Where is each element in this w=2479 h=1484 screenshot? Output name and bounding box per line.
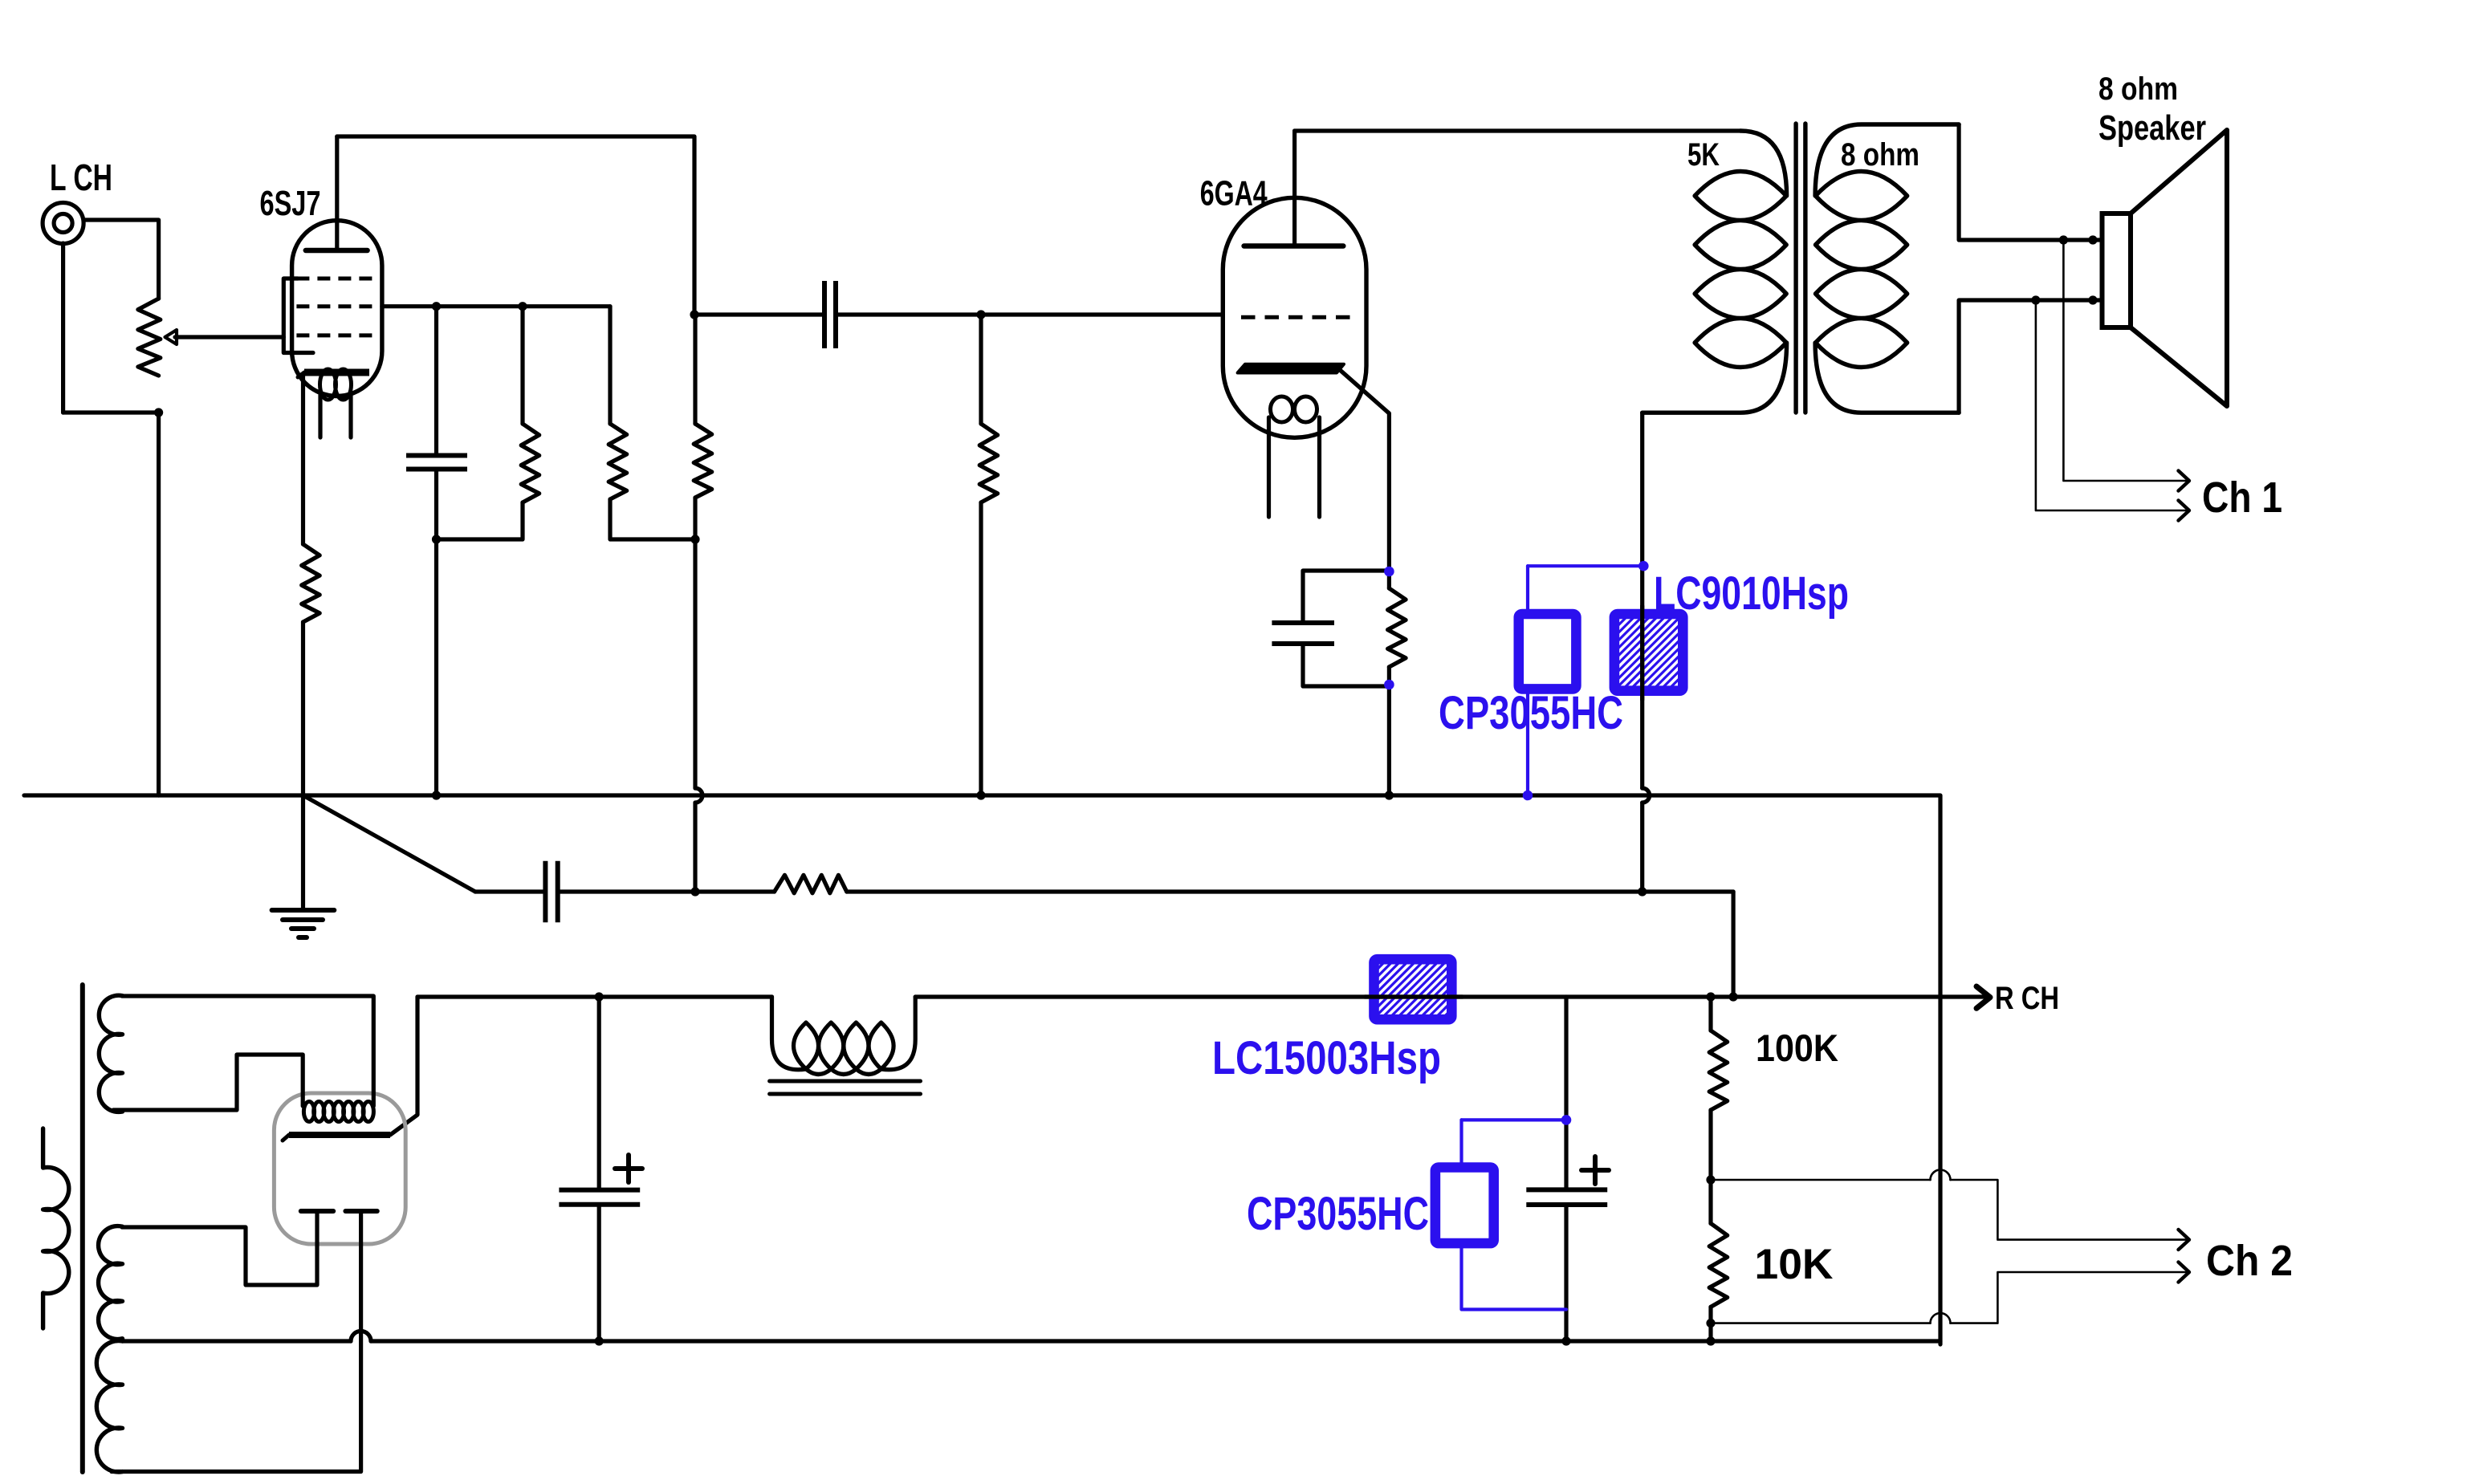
node feedback-R5 junction: [690, 887, 699, 896]
resistor R4 screen dropper 2: [609, 424, 627, 499]
node speaker- terminal: [2088, 295, 2097, 304]
resistor R7 cathode 6GA4: [1388, 588, 1406, 667]
node feedback to RCH row: [1729, 992, 1738, 1001]
wire C7 bottom lead: [597, 1205, 601, 1341]
arrow Ch1 upper: [2179, 471, 2190, 491]
T2 HV winding lower: [96, 1341, 122, 1472]
wire C3 to V2 grid: [836, 312, 1223, 316]
wire jack bottom to pot bottom: [63, 410, 159, 414]
wire R4 bottom to node B: [610, 499, 695, 539]
wire 10K leads: [1708, 1180, 1712, 1323]
label L CH: [50, 157, 112, 198]
wire feedback row left: [475, 889, 545, 893]
wire V1 screen row: [382, 304, 610, 308]
V2 grid: [1241, 315, 1352, 319]
svg-text:Ch 2: Ch 2: [2206, 1237, 2293, 1285]
wire R6 top lead: [979, 315, 983, 424]
overlay LC15003Hsp block: [1305, 949, 1520, 1019]
overlay CP3055HC block top: [1519, 614, 1577, 689]
wire R3 top lead: [520, 307, 524, 424]
capacitor C2 screen bypass: [406, 456, 467, 470]
wire jack to pot top: [83, 220, 159, 299]
wire through LC15003 block: [1365, 994, 1463, 998]
U1 cathode: [283, 1135, 390, 1140]
V1 grid bracket: [283, 279, 313, 353]
svg-text:5K: 5K: [1687, 137, 1720, 173]
V2 heater pin 2: [1317, 417, 1321, 517]
svg-text:8 ohm: 8 ohm: [2098, 71, 2178, 107]
node 100K top: [1706, 992, 1715, 1001]
svg-text:R CH: R CH: [1995, 981, 2059, 1016]
wire V2 plate to T1: [1295, 128, 1740, 132]
label Ch 1: [2202, 474, 2282, 522]
node feedback-B junction: [1638, 887, 1647, 896]
blue node on ground bus: [1523, 791, 1533, 801]
V1 heater pin 2: [348, 395, 352, 437]
V1 suppressor grid: [296, 277, 372, 281]
transformer T1 secondary winding: [1815, 124, 1959, 413]
wire feedback row mid: [558, 889, 775, 893]
V2 heater pin 1: [1267, 417, 1271, 517]
wire R1 wiper to V1 grid: [175, 335, 283, 339]
wire B+ to rectifier cathode: [390, 997, 417, 1135]
triode V2 6GA4 envelope: [1223, 197, 1366, 437]
wire node B down to bus hop: [693, 539, 697, 788]
capacitor C7 filter +: [559, 1155, 642, 1205]
blue wire CP3055-2 bottom: [1462, 1248, 1567, 1309]
node C2-R2 junction: [432, 535, 441, 543]
arrow Ch1 lower: [2179, 501, 2190, 521]
svg-text:100K: 100K: [1756, 1027, 1838, 1069]
T2 heater winding: [99, 995, 122, 1112]
wire T1 primary bottom down: [1640, 413, 1644, 788]
input jack L CH: [43, 203, 83, 244]
resistor R8 feedback: [775, 875, 847, 893]
wire 100K top lead: [1708, 997, 1712, 1031]
node 10K bottom: [1706, 1336, 1715, 1345]
label 6GA4: [1200, 174, 1268, 213]
label 8 ohm primary: [1841, 137, 1919, 173]
wire C2 bottom lead: [434, 470, 438, 796]
wire C8 bottom lead: [1564, 1205, 1568, 1341]
wire U1 plate1 staircase: [122, 1211, 317, 1285]
blue wire to CP3055 top: [1526, 566, 1529, 609]
V1 cathode: [298, 372, 369, 377]
wire B+ row right: [915, 994, 1986, 998]
wire T1 secondary bottom to speaker: [1959, 300, 2102, 413]
wire R3 bottom to C2: [437, 502, 523, 539]
capacitor C3 coupling: [824, 281, 836, 348]
label 6SJ7: [260, 184, 321, 223]
overlay CP3055HC block bottom: [1435, 1168, 1494, 1244]
wire through LC9010 block: [1640, 606, 1644, 700]
arrow R CH: [1976, 986, 1990, 1008]
wire R6 to ground bus: [979, 502, 983, 795]
svg-text:10K: 10K: [1755, 1241, 1834, 1288]
wire feedback corner down: [1732, 892, 1736, 997]
T1 core: [1796, 124, 1805, 413]
label R CH: [1995, 981, 2059, 1016]
pentode V1 6SJ7 envelope: [292, 221, 382, 396]
svg-text:L CH: L CH: [50, 157, 112, 198]
V1 heater: [320, 369, 352, 400]
wire R2 to ground bus: [301, 622, 305, 795]
blue node on plate-return: [1638, 561, 1649, 571]
overlay LC9010Hsp block: [1537, 614, 1835, 691]
wire cap C2 top lead: [434, 307, 438, 456]
hop center tap over plate lead: [351, 1331, 371, 1341]
label 100K: [1756, 1027, 1838, 1069]
hop over ground bus at x2046: [1642, 788, 1650, 803]
label CP3055HC top: [1439, 687, 1623, 739]
node C2 ground: [432, 791, 441, 799]
V1 screen grid: [296, 304, 372, 308]
T2 HV winding upper: [99, 1226, 123, 1340]
U1 plate 1: [301, 1209, 333, 1214]
node Ch2- junction: [1706, 1319, 1715, 1327]
blue node RC top: [1384, 567, 1394, 577]
blue wire LC9010 top: [1528, 564, 1643, 567]
resistor R6 grid leak: [979, 424, 998, 502]
resistor R2 cathode 6SJ7: [302, 544, 320, 622]
V2 heater: [1271, 396, 1317, 422]
wire U1 heater right: [122, 996, 373, 1106]
ground bus: [24, 795, 1940, 1344]
V1 heater pin 1: [318, 395, 322, 437]
node B plate-load junction: [690, 535, 699, 543]
wire T1 primary bottom to feedback row: [1640, 803, 1644, 892]
transformer T1 primary winding: [1642, 131, 1787, 413]
wire V1 cathode down: [301, 376, 305, 544]
label Ch 2: [2206, 1237, 2293, 1285]
node pot bottom junction: [154, 408, 163, 417]
blue wire CP3055-2 top: [1462, 1118, 1567, 1121]
node grid-leak junction: [976, 310, 985, 319]
wire R4 top lead: [608, 307, 612, 424]
wire pot bottom to ground bus: [157, 413, 161, 795]
U1 heater filament: [303, 1102, 373, 1122]
wire 100K bottom lead: [1708, 1110, 1712, 1180]
wire U1 plate2 to HV bottom: [112, 1211, 361, 1472]
node C7 top: [595, 992, 604, 1001]
node speaker+ terminal: [2088, 235, 2097, 244]
wire V2 cathode to bus: [1387, 686, 1391, 795]
node screen-cap junction: [432, 302, 441, 311]
wire Ch2 upper: [1711, 1180, 2187, 1240]
wire R7 leads: [1387, 571, 1391, 686]
arrow Ch2 lower: [2179, 1262, 2190, 1283]
wire U1 heater left jog: [113, 1055, 303, 1110]
svg-text:6SJ7: 6SJ7: [260, 184, 321, 223]
transformer T2 primary winding: [43, 1128, 69, 1328]
svg-text:Speaker: Speaker: [2098, 108, 2206, 148]
wire Ch1 drop 1: [2063, 240, 2188, 481]
V1 plate lead: [335, 136, 339, 250]
label CP3055HC bottom: [1247, 1188, 1429, 1240]
V2 plate lead: [1292, 131, 1296, 246]
wire Ch2 lower: [1711, 1272, 2187, 1323]
blue wire CP3055 bottom to bus: [1526, 693, 1529, 795]
blue node RC bottom: [1384, 680, 1394, 690]
wire Ch1 drop 2: [2036, 300, 2188, 510]
blue wire to CP3055-2: [1459, 1120, 1463, 1162]
arrow Ch2 upper: [2179, 1230, 2190, 1250]
svg-text:Ch 1: Ch 1: [2202, 474, 2282, 522]
wire R5 bottom lead: [693, 498, 697, 539]
wire 10K to center tap: [1708, 1323, 1712, 1341]
V2 cathode: [1238, 364, 1344, 373]
rectifier U1 envelope: [274, 1093, 405, 1244]
wire feedback row right: [847, 889, 1733, 893]
node screen-R junction: [518, 302, 527, 311]
hop over ground bus at x866: [695, 788, 702, 803]
label LC15003Hsp: [1212, 1032, 1441, 1084]
node Ch2+ junction: [1706, 1175, 1715, 1184]
T2 core: [80, 985, 85, 1472]
wire jack down: [61, 243, 65, 413]
svg-text:CP3055HC: CP3055HC: [1247, 1188, 1429, 1240]
wire V2 cathode lead: [1339, 369, 1389, 571]
label 10K: [1755, 1241, 1834, 1288]
wiper arrow R1: [165, 330, 177, 344]
resistor R10 10K: [1709, 1223, 1728, 1307]
wire C8 top lead: [1564, 997, 1568, 1189]
svg-text:8 ohm: 8 ohm: [1841, 137, 1919, 173]
node V2 cathode ground: [1385, 791, 1394, 799]
potentiometer R1: [138, 299, 161, 376]
node C8 bottom: [1561, 1336, 1570, 1345]
inductor L1 choke: [770, 997, 921, 1094]
node R6 ground: [976, 791, 985, 799]
node C7 bottom: [595, 1336, 604, 1345]
svg-text:CP3055HC: CP3055HC: [1439, 687, 1623, 739]
blue node on C8 lead: [1561, 1115, 1572, 1125]
label 8 ohm speaker: [2098, 71, 2178, 107]
V2 plate: [1244, 243, 1344, 249]
wire T1 secondary top to speaker: [1959, 124, 2102, 240]
node speaker+ tap: [2059, 235, 2068, 244]
wire C7 top lead: [597, 997, 601, 1190]
hop Ch2 upper over bus drop: [1931, 1170, 1951, 1181]
hop Ch2 lower over bus drop: [1931, 1313, 1951, 1323]
capacitor C5 cathode bypass: [1272, 623, 1334, 644]
wire center tap row: [123, 1339, 1941, 1343]
resistor R5 plate load: [694, 424, 712, 498]
U1 plate 2: [345, 1209, 377, 1214]
wire V1 plate to node A: [337, 136, 694, 315]
label Speaker: [2098, 108, 2206, 148]
resistor R9 100K: [1709, 1031, 1728, 1110]
label 5K: [1687, 137, 1720, 173]
V1 control grid: [296, 333, 372, 337]
wire node A to C3: [694, 312, 824, 316]
wire C5 bottom jog: [1303, 644, 1389, 686]
svg-text:LC15003Hsp: LC15003Hsp: [1212, 1032, 1441, 1084]
node speaker- tap: [2031, 295, 2040, 304]
node A plate junction: [690, 310, 698, 319]
ground symbol: [272, 910, 335, 937]
wire R5 top lead: [693, 315, 697, 424]
wire B+ row left: [417, 994, 772, 998]
wire hop to feedback row: [693, 803, 697, 892]
capacitor C6 feedback: [545, 861, 557, 923]
svg-text:LC9010Hsp: LC9010Hsp: [1654, 567, 1849, 620]
capacitor C8 filter +: [1526, 1157, 1609, 1205]
wire C5 top jog: [1303, 571, 1389, 623]
wire cathode node to earth: [301, 795, 305, 910]
resistor R3 screen dropper: [521, 424, 539, 502]
speaker LS1: [2102, 130, 2228, 406]
label LC9010Hsp: [1654, 567, 1849, 620]
V1 plate: [306, 248, 368, 254]
wire feedback diagonal: [303, 795, 476, 892]
